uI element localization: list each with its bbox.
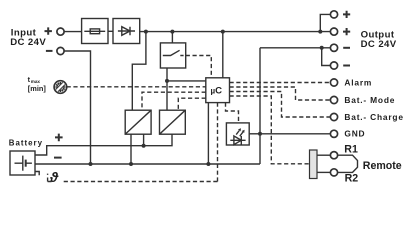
switch contact symbol xyxy=(163,50,184,55)
dashed wire uC to Alarm xyxy=(230,82,331,84)
wire block to R1 xyxy=(317,154,330,156)
junction uC minus rail xyxy=(206,162,210,166)
wire input+ to fuse xyxy=(64,31,81,33)
dashed wire pot to uC xyxy=(67,86,206,88)
dashed wire uC to Bat Charge xyxy=(230,92,331,118)
label Battery xyxy=(9,138,43,147)
theta symbol xyxy=(49,169,59,185)
LED symbol xyxy=(230,136,245,145)
label Remote xyxy=(363,160,402,172)
battery plus sign xyxy=(55,134,63,142)
svg-text:ϑ: ϑ xyxy=(49,169,59,185)
wire output minus down to minus rail xyxy=(259,48,261,164)
plus sign out1 xyxy=(343,11,350,18)
dashed wire uC to Bat Mode xyxy=(230,87,331,100)
wire feed DCDC1 xyxy=(132,32,146,111)
wire output + pair xyxy=(320,14,330,31)
minus sign input xyxy=(46,50,53,52)
potentiometer t_max xyxy=(54,81,67,94)
terminal output +2 xyxy=(330,28,337,35)
fuse symbol xyxy=(84,30,105,32)
plus sign input xyxy=(45,27,52,34)
dashed wire uC to remote block xyxy=(230,96,310,164)
svg-text:GND: GND xyxy=(344,129,365,139)
dashed wire uC theta sensor xyxy=(217,103,219,182)
switch S1 box xyxy=(160,43,185,68)
junction GND minus-output xyxy=(258,132,262,136)
theta sensor wire at battery xyxy=(35,172,39,176)
wire block to R2 xyxy=(317,171,330,173)
diode V1 box xyxy=(113,19,140,44)
wire switch to DCDC2 xyxy=(166,68,168,110)
DC/DC converter 2 xyxy=(160,110,186,134)
wire dcdc1 right leg to battery plus line xyxy=(143,134,145,146)
terminal R2 xyxy=(330,169,337,176)
fuse F1 box xyxy=(82,19,108,44)
minus sign out2 xyxy=(343,65,350,67)
battery box xyxy=(10,151,35,175)
terminal output -2 xyxy=(330,62,337,69)
junction rail-uC xyxy=(221,30,225,34)
svg-text:µC: µC xyxy=(211,86,223,97)
terminal Bat Charge xyxy=(330,113,337,120)
svg-text:Battery: Battery xyxy=(9,138,43,147)
remote bracket xyxy=(338,155,358,172)
svg-text:Alarm: Alarm xyxy=(344,77,372,87)
DC/DC converter 1 xyxy=(125,110,151,134)
label R2 xyxy=(345,172,359,184)
terminal GND xyxy=(330,130,337,137)
wire output minus to down wire xyxy=(260,47,330,49)
label Output DC 24V xyxy=(361,29,397,50)
dashed wire uC to DCDC2 xyxy=(178,98,206,110)
svg-text:Remote: Remote xyxy=(363,160,402,172)
junction minus pair xyxy=(320,46,324,50)
svg-text:Bat.- Mode: Bat.- Mode xyxy=(344,95,395,105)
plus sign out2 xyxy=(343,28,350,35)
terminal Bat Mode xyxy=(330,96,337,103)
microcontroller U1 xyxy=(206,78,230,103)
minus sign out1 xyxy=(343,47,350,49)
diode symbol xyxy=(118,27,135,36)
svg-text:R1: R1 xyxy=(344,144,358,156)
svg-text:[min]: [min] xyxy=(28,84,47,93)
junction dcdc1-batplus xyxy=(142,144,146,148)
svg-text:DC 24V: DC 24V xyxy=(361,39,397,50)
junction input minus rail xyxy=(89,162,93,166)
junction rail-switch xyxy=(170,30,174,34)
terminal input + xyxy=(57,28,64,35)
junction dcdc1 minus rail xyxy=(129,162,133,166)
GND wire xyxy=(260,133,330,135)
label Input DC 24V xyxy=(10,28,46,48)
LED indicator box xyxy=(226,123,249,145)
terminal input - xyxy=(57,47,64,54)
dashed wire uC to LED xyxy=(226,103,239,123)
terminal output +1 xyxy=(330,11,337,18)
minus rail xyxy=(35,163,260,165)
main plus rail xyxy=(140,31,331,33)
remote jumper block xyxy=(310,150,318,179)
wire uC top xyxy=(222,32,224,78)
wire output - pair xyxy=(322,48,331,66)
terminal R1 xyxy=(330,152,337,159)
svg-text:R2: R2 xyxy=(345,172,359,184)
wire feed switch xyxy=(171,32,173,43)
wire uC bottom to minus rail xyxy=(207,103,209,164)
signal labels xyxy=(344,77,403,138)
terminal output -1 xyxy=(330,44,337,51)
label R1 xyxy=(344,144,358,156)
label t max xyxy=(28,75,47,93)
wire LED to GND line xyxy=(249,133,260,135)
wire fuse to diode xyxy=(108,30,113,32)
wire dcdc1 left leg to minus rail xyxy=(130,134,132,164)
wire input- down to minus rail xyxy=(64,51,90,164)
terminal Alarm xyxy=(330,79,337,86)
wire tee to uC left xyxy=(167,80,206,82)
svg-text:DC 24V: DC 24V xyxy=(10,37,46,48)
battery cell symbol xyxy=(15,162,32,164)
battery minus sign xyxy=(54,157,62,159)
junction switch-uC tee xyxy=(165,79,169,83)
junction rail-dcdc1 xyxy=(144,30,148,34)
junction rail-output xyxy=(318,30,322,34)
wire battery plus to DCDC2 xyxy=(35,134,172,155)
svg-text:Bat.- Charge: Bat.- Charge xyxy=(344,112,403,122)
dashed wire uC to DCDC1 xyxy=(142,92,206,110)
dashed wire switch to uC top xyxy=(186,56,212,78)
